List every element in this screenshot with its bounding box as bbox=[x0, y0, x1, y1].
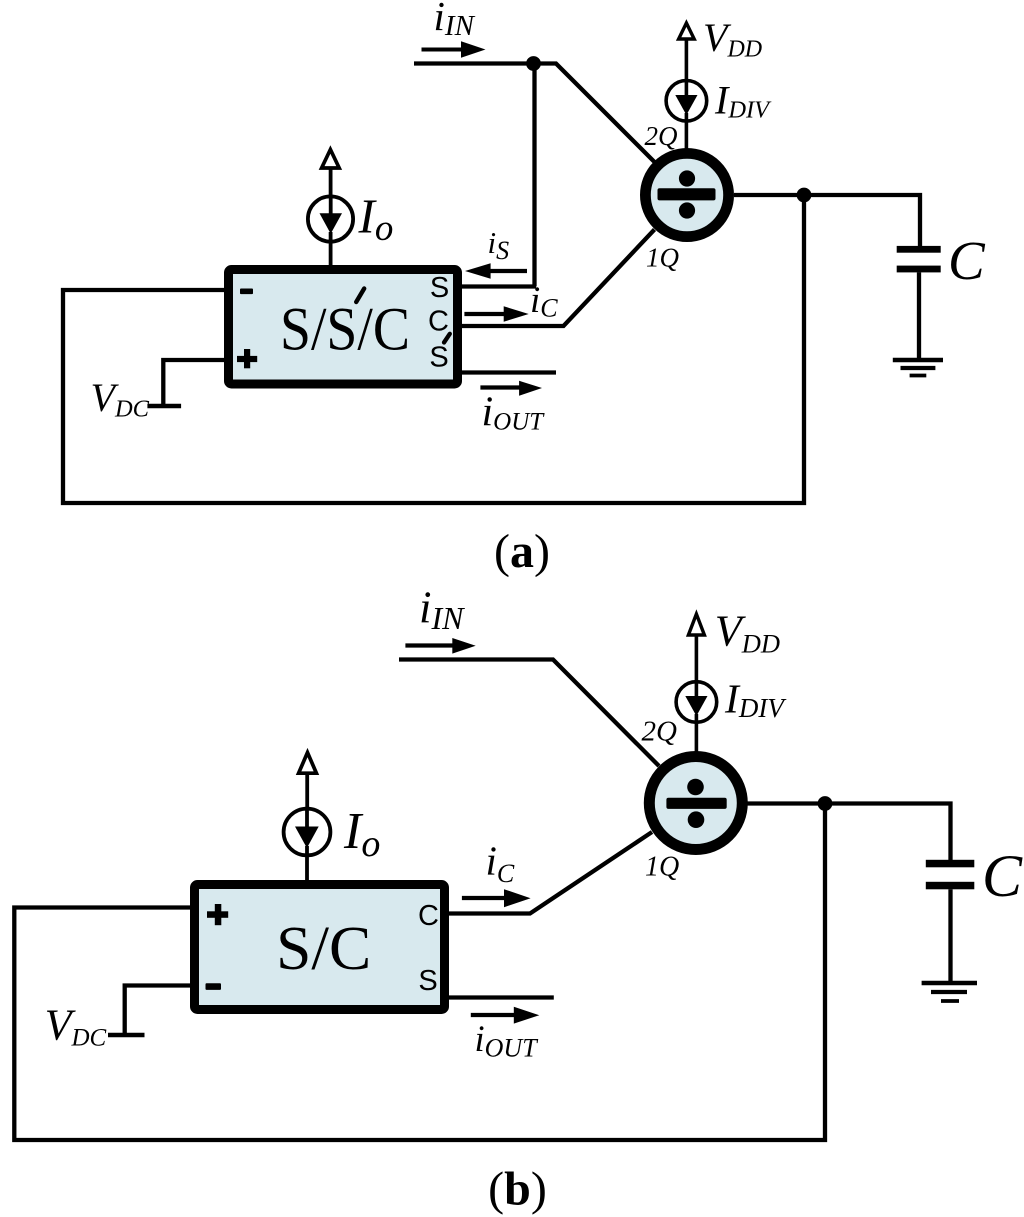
svg-text:(b): (b) bbox=[488, 1163, 547, 1216]
annotation arrow i_C (a) bbox=[464, 306, 528, 321]
capacitor C (b) bbox=[926, 860, 975, 982]
svg-text:C: C bbox=[982, 843, 1023, 909]
current source I_DIV (b) bbox=[676, 682, 717, 752]
annotation arrow i_C (b) bbox=[462, 889, 531, 907]
wire divider output to capacitor (b) bbox=[747, 804, 951, 862]
division sign (b) bbox=[666, 779, 726, 828]
power arrow V_DD (b) bbox=[688, 614, 704, 682]
svg-text:S/C: S/C bbox=[276, 915, 371, 983]
current source I_DIV (a) bbox=[666, 81, 707, 150]
svg-text:VDD: VDD bbox=[715, 607, 780, 659]
division sign (a) bbox=[658, 170, 716, 218]
wire minus input to V_DC (b) bbox=[125, 986, 191, 1034]
wire i_IN input to divider 2Q (b) bbox=[399, 660, 659, 767]
current source I_o (a) bbox=[308, 196, 353, 266]
label minus input (a) bbox=[240, 289, 253, 295]
svg-text:1Q: 1Q bbox=[646, 243, 679, 273]
wire divider output to capacitor (a) bbox=[734, 195, 920, 247]
svg-text:S/S/C: S/S/C bbox=[280, 297, 410, 364]
junction node input (a) bbox=[526, 56, 541, 71]
svg-text:VDC: VDC bbox=[91, 375, 150, 423]
current source I_o (b) bbox=[284, 809, 331, 881]
svg-text:S: S bbox=[429, 342, 448, 374]
svg-text:S: S bbox=[430, 272, 449, 304]
svg-text:iS: iS bbox=[488, 225, 510, 265]
port prime mark (a) bbox=[444, 334, 450, 343]
svg-text:Io: Io bbox=[343, 803, 380, 865]
wire feedback loop (b) bbox=[14, 808, 825, 1140]
svg-text:VDD: VDD bbox=[703, 15, 762, 62]
svg-text:iIN: iIN bbox=[419, 583, 465, 637]
svg-text:2Q: 2Q bbox=[642, 716, 678, 748]
svg-text:Io: Io bbox=[358, 188, 394, 249]
current arrow i_IN (a) bbox=[422, 41, 486, 57]
block S/S'/C (a) bbox=[229, 270, 458, 385]
wire port S (b) bbox=[448, 995, 554, 999]
terminal bar V_DC (b) bbox=[108, 1033, 145, 1038]
annotation arrow i_S (a) bbox=[465, 263, 527, 278]
svg-text:C: C bbox=[418, 900, 439, 932]
wire i_IN input (a) bbox=[414, 61, 534, 65]
svg-text:iOUT: iOUT bbox=[482, 390, 546, 436]
annotation arrow i_OUT (b) bbox=[471, 1007, 540, 1024]
power arrow I_o (b) bbox=[299, 753, 317, 810]
capacitor C (a) bbox=[897, 246, 941, 359]
divider U2 (b) bbox=[649, 757, 742, 850]
svg-text:iC: iC bbox=[530, 280, 558, 323]
svg-text:1Q: 1Q bbox=[645, 852, 679, 883]
wire port S' (a) bbox=[461, 370, 556, 374]
svg-text:IDIV: IDIV bbox=[724, 676, 787, 724]
svg-text:S: S bbox=[418, 965, 437, 997]
ground (a) bbox=[893, 360, 943, 376]
wire junction to divider 2Q (a) bbox=[534, 64, 655, 163]
label plus input (a) bbox=[237, 349, 257, 368]
label minus input (b) bbox=[206, 983, 222, 990]
wire port C to divider 1Q (b) bbox=[448, 832, 652, 914]
junction node output (b) bbox=[818, 796, 833, 811]
current arrow i_IN (b) bbox=[405, 638, 475, 654]
svg-text:C: C bbox=[428, 306, 449, 338]
wire port S (a) bbox=[461, 284, 536, 288]
wire port C to divider 1Q (a) bbox=[461, 230, 655, 327]
svg-text:2Q: 2Q bbox=[645, 121, 678, 151]
wire feedback loop (a) bbox=[63, 200, 804, 503]
svg-text:iOUT: iOUT bbox=[475, 1018, 539, 1063]
wire plus input to V_DC (a) bbox=[163, 360, 225, 404]
power arrow V_DD (a) bbox=[679, 23, 695, 81]
svg-text:VDC: VDC bbox=[45, 1001, 107, 1052]
svg-text:(a): (a) bbox=[494, 525, 550, 578]
ground (b) bbox=[922, 983, 977, 1001]
power arrow I_o (a) bbox=[322, 150, 340, 198]
junction node output (a) bbox=[797, 188, 812, 203]
prime mark on block name (a) bbox=[356, 289, 364, 303]
svg-text:IDIV: IDIV bbox=[714, 78, 772, 124]
divider U1 (a) bbox=[645, 153, 728, 236]
block S/C (b) bbox=[195, 885, 445, 1010]
terminal bar V_DC (a) bbox=[147, 404, 181, 409]
wire junction down to S port (a) bbox=[532, 64, 536, 287]
svg-text:iC: iC bbox=[486, 838, 515, 889]
label plus input (b) bbox=[207, 904, 228, 925]
annotation arrow i_OUT (a) bbox=[480, 381, 542, 396]
svg-text:iIN: iIN bbox=[434, 0, 476, 42]
svg-text:C: C bbox=[948, 230, 986, 291]
